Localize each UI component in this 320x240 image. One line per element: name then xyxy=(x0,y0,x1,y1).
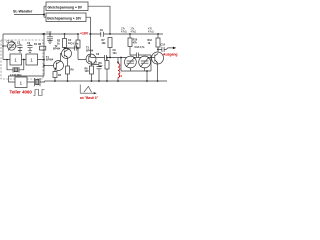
label +16V (red) xyxy=(79,31,89,35)
resistor R1 xyxy=(40,46,46,50)
svg-text:C9: C9 xyxy=(100,29,104,32)
power box +8V xyxy=(46,2,88,11)
capacitor C12 trimmer xyxy=(144,68,146,71)
node R7 bottom xyxy=(109,57,111,59)
svg-text:4,194 MHz: 4,194 MHz xyxy=(10,74,22,77)
wire oscillator output xyxy=(9,34,45,82)
inductor L1 (red) xyxy=(117,58,119,64)
capacitor C11 trimmer xyxy=(129,68,131,71)
resistor R6 xyxy=(66,66,70,74)
gate U2 divider xyxy=(15,77,27,88)
wire from +16V box down xyxy=(86,17,91,34)
crystal Q1 xyxy=(13,67,19,73)
wire to T1 base xyxy=(44,65,54,67)
resistor R10 xyxy=(128,38,132,47)
wire tank to ground xyxy=(146,71,148,81)
node coil tap xyxy=(117,61,119,63)
transistor T5 xyxy=(152,52,164,64)
wire left feed inside oscillator xyxy=(3,42,10,60)
svg-text:C10: C10 xyxy=(47,30,52,34)
capacitor C7 emitter bypass xyxy=(92,65,102,82)
svg-text:C4 10n: C4 10n xyxy=(71,43,79,46)
svg-text:C13 4,7n: C13 4,7n xyxy=(135,46,145,49)
squarewave symbol xyxy=(34,90,45,96)
svg-text:Gleichspannung + 16V: Gleichspannung + 16V xyxy=(47,16,82,20)
svg-text:Ausgang: Ausgang xyxy=(163,52,178,56)
node feedback xyxy=(23,59,25,61)
power box +16V xyxy=(46,13,86,22)
node ground junctions xyxy=(54,80,158,82)
svg-text:C14: C14 xyxy=(161,43,166,46)
resistor R12 xyxy=(156,38,160,47)
svg-text:L1: L1 xyxy=(119,74,123,78)
node R3 bottom xyxy=(77,47,79,49)
svg-text:47k: 47k xyxy=(133,41,138,44)
svg-text:1k: 1k xyxy=(148,42,151,45)
transistor T3 xyxy=(86,54,96,64)
svg-text:1k: 1k xyxy=(57,42,60,45)
svg-text:St.-Wandler: St.-Wandler xyxy=(13,10,33,14)
svg-text:an "Bastl 3": an "Bastl 3" xyxy=(80,96,99,100)
svg-text:BF494: BF494 xyxy=(46,59,54,62)
gate U1b inverter 1 xyxy=(26,54,38,65)
wire tank loop xyxy=(121,58,151,72)
transistor T1 xyxy=(54,61,64,71)
node xyxy=(2,45,4,47)
transistor T2 xyxy=(62,49,72,59)
svg-text:R4: R4 xyxy=(58,74,62,77)
oscillator dashed box xyxy=(1,40,43,79)
node tank corners xyxy=(120,57,122,59)
resistor R3 xyxy=(76,40,80,48)
svg-text:Teiler 4060: Teiler 4060 xyxy=(10,90,33,95)
svg-text:100: 100 xyxy=(85,70,90,73)
svg-text:47kΩ: 47kΩ xyxy=(121,31,127,34)
wire +16V supply rail xyxy=(3,34,163,42)
svg-text:Gleichspannung + 8V: Gleichspannung + 8V xyxy=(48,5,83,9)
resistor R9 xyxy=(105,61,109,70)
svg-text:R1 1M: R1 1M xyxy=(34,43,41,46)
wire T3 collector node to tank xyxy=(91,55,122,58)
svg-text:4k7: 4k7 xyxy=(99,65,104,68)
node rail junctions xyxy=(41,33,159,36)
resistor R2 xyxy=(63,39,67,48)
node T1 base tap xyxy=(43,65,45,67)
svg-text:R6: R6 xyxy=(71,69,75,72)
wire input line from converter xyxy=(14,6,46,17)
wire from +8V box to rail xyxy=(88,6,110,34)
label values above rail xyxy=(121,28,154,34)
gate U1a inverter 1 xyxy=(10,54,22,65)
svg-text:10k: 10k xyxy=(102,42,107,45)
svg-text:47kΩ: 47kΩ xyxy=(131,31,137,34)
node osc out xyxy=(43,59,45,61)
wire output arrow xyxy=(164,48,174,50)
node input junction xyxy=(43,14,45,16)
svg-text:BF494: BF494 xyxy=(86,49,94,52)
svg-text:47kΩ: 47kΩ xyxy=(148,31,154,34)
sawtooth waveform symbol xyxy=(80,85,94,94)
resistor R8 xyxy=(90,66,94,74)
crystal Q2 output resonator xyxy=(27,78,45,86)
svg-text:+16V: +16V xyxy=(80,32,89,36)
svg-text:10n: 10n xyxy=(113,52,118,55)
node T2 collector xyxy=(64,47,66,49)
resistor R4 xyxy=(53,72,57,78)
svg-text:BF494: BF494 xyxy=(53,48,61,51)
capacitor C8 xyxy=(105,55,107,61)
resistor R7 xyxy=(108,38,112,48)
wire ground rail xyxy=(45,80,168,82)
wire gate1 to gate2 xyxy=(22,59,27,61)
node T5 collector xyxy=(157,49,159,51)
wire crystal feedback xyxy=(7,60,24,70)
svg-text:C8: C8 xyxy=(96,53,100,56)
